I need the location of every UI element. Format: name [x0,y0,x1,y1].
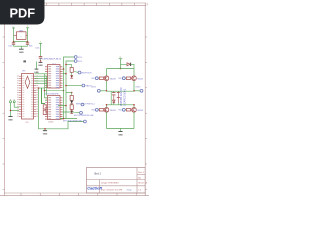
wire [107,68,135,70]
svg-text:OUT2: OUT2 [135,87,140,89]
svg-text:Brd 1: Brd 1 [95,172,102,176]
wire [42,88,46,104]
diode D3 [117,91,120,105]
junction [38,87,40,89]
connector pad X9-1 [119,108,126,111]
svg-text:BD243: BD243 [138,110,144,112]
svg-text:PDF: PDF [9,5,35,20]
svg-text:MOTOR DRIVE IN LINE: MOTOR DRIVE IN LINE [74,115,94,117]
wire [63,111,75,113]
rev field [138,172,145,174]
LED LED3 [70,109,73,113]
drawn by field [138,189,142,191]
wire [45,90,64,92]
junction [65,85,67,87]
junction [71,92,73,94]
svg-text:BD243: BD243 [110,78,116,80]
wire [11,109,20,111]
wire [20,46,22,49]
wire [39,88,84,129]
wire [63,57,75,69]
sheet field [138,182,148,185]
junction [63,68,65,70]
resistor R4 [98,77,104,79]
wire [106,81,108,92]
ground GND4 [118,132,123,137]
resistor R2 [70,93,73,103]
connector pad X7-1 [119,77,126,80]
junction [65,105,67,107]
wire [66,64,72,66]
svg-text:SERVO OUT PIN RC-0: SERVO OUT PIN RC-0 [76,104,95,106]
junction [65,64,67,66]
resistor R5 [125,77,131,79]
wire [110,91,112,105]
capacitor C1 100n [8,42,15,48]
svg-text:RB7/PGD IN: RB7/PGD IN [81,72,92,74]
svg-text:IN1: IN1 [92,78,95,80]
svg-text:GND: GND [43,134,48,136]
wire [120,129,122,132]
connector pad X6-1 [92,77,99,80]
wire [10,110,12,116]
wire [65,74,67,119]
svg-text:GND: GND [38,65,43,67]
wire [27,31,29,42]
svg-text:IN2: IN2 [119,78,122,80]
svg-text:IN4: IN4 [119,110,122,112]
capacitor C2 100n [26,42,33,48]
connector JP1 (DIP socket) [17,60,38,123]
resistor R7 [125,109,131,111]
wire [106,112,108,128]
resistor R6 [98,109,104,111]
svg-text:Sheet: 1/1: Sheet: 1/1 [138,182,148,185]
wire [35,73,48,75]
wire [133,105,135,108]
svg-text:Rev: 1: Rev: 1 [138,172,145,174]
svg-text:OUT1: OUT1 [91,87,96,89]
junction [106,90,108,92]
junction [44,90,46,92]
svg-text:MOTOR A DRIVE LINE: MOTOR A DRIVE LINE [63,120,82,123]
svg-text:100n: 100n [35,47,39,49]
wire [35,80,48,82]
wire [14,106,19,108]
PDF badge overlay [0,0,45,25]
wire [35,82,48,84]
wire [45,97,48,99]
junction [27,41,29,43]
wire [39,87,46,89]
wire [13,31,15,42]
resistor R3 [70,104,73,110]
capacitor C3 100n [35,46,42,61]
junction [10,110,12,112]
resistor R1 [70,65,73,76]
wire [106,69,108,77]
LED LED2 [70,101,73,104]
connector pad X2-2 [74,60,83,64]
wire [66,92,72,94]
power flag P7 [13,99,15,107]
power flag P5 [10,99,12,110]
junction [63,90,65,92]
connector pad X8-1 [92,108,99,111]
junction [65,73,67,75]
transistor Q2 [132,76,143,81]
resistor R8 [43,105,46,109]
svg-text:GEARED 100:1: GEARED 100:1 [123,88,126,106]
connector pad X1-1 [91,87,106,93]
title block frame [87,168,146,194]
svg-text:100n: 100n [29,45,33,47]
wire [133,69,135,77]
connector pad X1-2 [134,87,143,93]
connector pad X10-1 [82,84,92,88]
svg-text:Design: TESORINO: Design: TESORINO [101,183,119,185]
connector pad X11-1 [84,120,87,123]
net label [63,120,82,123]
date field [101,188,122,191]
IC2 driver [44,93,63,123]
svg-text:GND: GND [19,52,24,54]
svg-text:3:10p: 3:10p [127,189,133,191]
svg-text:BD243: BD243 [138,78,144,80]
wire [36,62,38,70]
ground GND2 [8,117,13,122]
wire [35,78,48,80]
wire [45,74,48,98]
wire [107,104,135,106]
wire [60,118,77,120]
power flag +5V P2 [26,26,29,30]
svg-text:PIC16F628A-I/P-ML50: PIC16F628A-I/P-ML50 [40,57,62,60]
wire [133,112,135,128]
wire [14,45,28,47]
document number field [101,183,119,185]
wire [107,90,135,92]
wire [45,99,48,101]
power flag +5V P4 [39,42,42,46]
ground GND1 [19,49,24,54]
capacitor C5 (motor snubber) [112,91,115,100]
voltage regulator IC4 7805 [14,30,28,39]
transistor Q4 [132,108,143,113]
IC1 PIC16F628A [40,57,63,88]
connector pad X5-1 [74,111,94,117]
resistor R9 [43,110,46,114]
CadSoft logo [87,186,103,191]
svg-text:L293D: L293D [48,122,54,124]
wire [66,85,82,87]
svg-text:Date: 2/7/2017 3:10 PM: Date: 2/7/2017 3:10 PM [101,188,122,191]
svg-text:1: 1 [120,99,121,101]
wire [45,76,47,95]
LED LED1 [70,75,73,78]
junction [63,118,65,120]
svg-text:GND: GND [8,120,13,122]
ground GND5 [38,62,43,67]
transistor Q1 [104,76,116,81]
svg-text:100n: 100n [8,45,12,47]
junction [120,68,122,70]
svg-text:CadSoft: CadSoft [87,186,103,191]
junction [133,104,135,106]
wire [133,81,135,92]
svg-text:IC3: IC3 [26,122,29,124]
motor label M1 [120,87,126,106]
junction [106,104,108,106]
diode D1 [121,63,135,69]
junction [133,90,135,92]
size field [138,177,141,180]
connector pad X2-1 [74,56,83,60]
wire [14,41,28,43]
power flag +12V P6 [119,57,123,69]
ground GND6 [34,69,39,74]
svg-text:IN3: IN3 [92,110,95,112]
wire [107,128,135,130]
time field [127,189,133,191]
diode D2 [113,100,116,105]
junction [44,128,46,130]
wire [58,105,66,107]
junction [40,60,42,62]
connector pad X3-1 [74,71,92,74]
svg-text:BD243: BD243 [110,110,116,112]
wire [60,69,64,119]
wire [106,105,108,108]
power flag +12V P1 [12,26,15,30]
wire [35,75,48,77]
transistor Q3 [104,108,116,113]
wire [63,61,75,74]
junction [13,41,15,43]
svg-text:GND: GND [118,134,123,136]
title text [95,172,102,176]
ground GND3 [43,129,48,136]
connector pad X4-1 [76,103,95,106]
